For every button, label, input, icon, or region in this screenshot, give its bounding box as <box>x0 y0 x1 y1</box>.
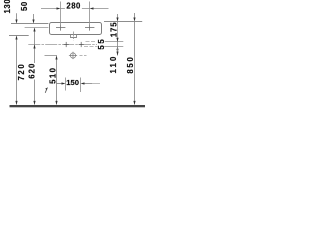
svg-text:620: 620 <box>27 63 36 79</box>
dimension 620 line at x=34.5 (shared with 50 lower arrow) <box>34 29 36 105</box>
dimension 280 line and arrows <box>41 8 109 10</box>
tap hole cross left <box>56 24 65 30</box>
svg-text:850: 850 <box>126 55 135 73</box>
wire: left rim extension line <box>11 23 48 25</box>
dimension 110 segment <box>117 47 119 56</box>
wire: fixing level line right <box>84 46 98 48</box>
wire: right rim extension line <box>104 21 142 23</box>
wire: fixing holes centerline <box>28 44 97 46</box>
dimension 55 segment <box>117 42 119 47</box>
leader arrow NE near trap <box>45 90 46 93</box>
svg-text:110: 110 <box>109 55 118 74</box>
wire: basin bottom extension line left <box>9 35 29 37</box>
svg-text:130: 130 <box>3 0 12 14</box>
dimension 130/720 line at x=16.5 <box>16 13 18 104</box>
wire: drain level line <box>45 55 58 57</box>
tap hole cross right <box>85 24 94 30</box>
drain housing U under basin <box>71 35 77 38</box>
drain symbol circle-cross <box>69 52 77 59</box>
washbasin body rectangle <box>50 23 102 35</box>
fixing hole mark left <box>64 42 69 47</box>
floor line <box>10 105 146 107</box>
svg-text:55: 55 <box>97 38 106 50</box>
dimension 510 line at x=56.5 <box>56 57 58 105</box>
label 150 <box>66 79 79 86</box>
svg-text:150: 150 <box>66 78 79 87</box>
dimension 150 line and arrows <box>57 83 64 85</box>
label 850 <box>127 57 134 74</box>
dimension 50 arrows at x=33.5 <box>33 14 35 23</box>
dimension 150 extension lines <box>65 78 67 91</box>
label 620 <box>29 63 36 80</box>
svg-text:175: 175 <box>110 21 119 37</box>
label 175 <box>111 23 118 38</box>
dimension 175 line at x=117.5 <box>117 14 119 21</box>
label 280 <box>65 3 82 10</box>
wire: tap hole centerline left <box>25 27 49 29</box>
svg-text:50: 50 <box>20 1 29 11</box>
wire: drain vertical centerline <box>73 32 75 41</box>
label 510 <box>49 67 56 84</box>
svg-text:280: 280 <box>66 2 81 11</box>
wire: overflow level line right <box>86 41 97 43</box>
dimension 850 line at x=134.5 <box>134 13 136 21</box>
dimension 280 extension lines <box>60 2 62 25</box>
svg-text:510: 510 <box>48 67 57 84</box>
label 720 <box>18 64 25 82</box>
svg-text:720: 720 <box>17 63 26 81</box>
fixing hole mark right <box>79 42 84 47</box>
